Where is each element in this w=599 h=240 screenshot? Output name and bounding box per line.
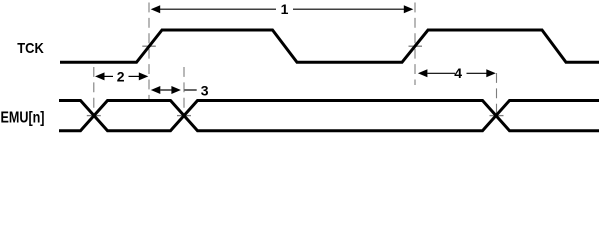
dashed line at TCK rising edge 1: [148, 3, 150, 101]
svg-text:4: 4: [454, 65, 462, 81]
svg-text:1: 1: [281, 1, 289, 17]
svg-text:2: 2: [117, 68, 125, 84]
svg-text:TCK: TCK: [17, 40, 44, 57]
reference tick on EMU crossing 1: [87, 115, 101, 117]
dimension arrow 1 (TCK rise 1 to TCK rise 2): [151, 5, 414, 13]
EMU[n] bus waveform line B (starts bottom): [59, 101, 599, 131]
dimension arrow 3 (TCK rise 1 to EMU crossing 2): [151, 86, 197, 94]
dashed line at EMU crossing 2: [183, 67, 185, 116]
reference tick on TCK rising edge 1: [142, 45, 156, 47]
dashed line at EMU crossing 3: [496, 73, 498, 116]
reference tick on EMU crossing 2: [177, 115, 191, 117]
dimension arrow 2 (EMU crossing 1 to TCK rise 1): [95, 72, 148, 80]
reference tick on TCK rising edge 2: [409, 45, 423, 47]
dashed line at TCK rising edge 2: [414, 3, 416, 86]
dashed line at EMU crossing 1: [93, 67, 95, 116]
svg-text:EMU[n]: EMU[n]: [1, 109, 45, 126]
EMU[n] bus waveform line A (starts top): [59, 101, 599, 131]
dimension arrow 4 (TCK rise 2 to EMU crossing 3): [418, 69, 496, 77]
svg-text:3: 3: [201, 82, 209, 98]
reference tick on EMU crossing 3: [490, 115, 504, 117]
TCK waveform: [60, 30, 599, 62]
